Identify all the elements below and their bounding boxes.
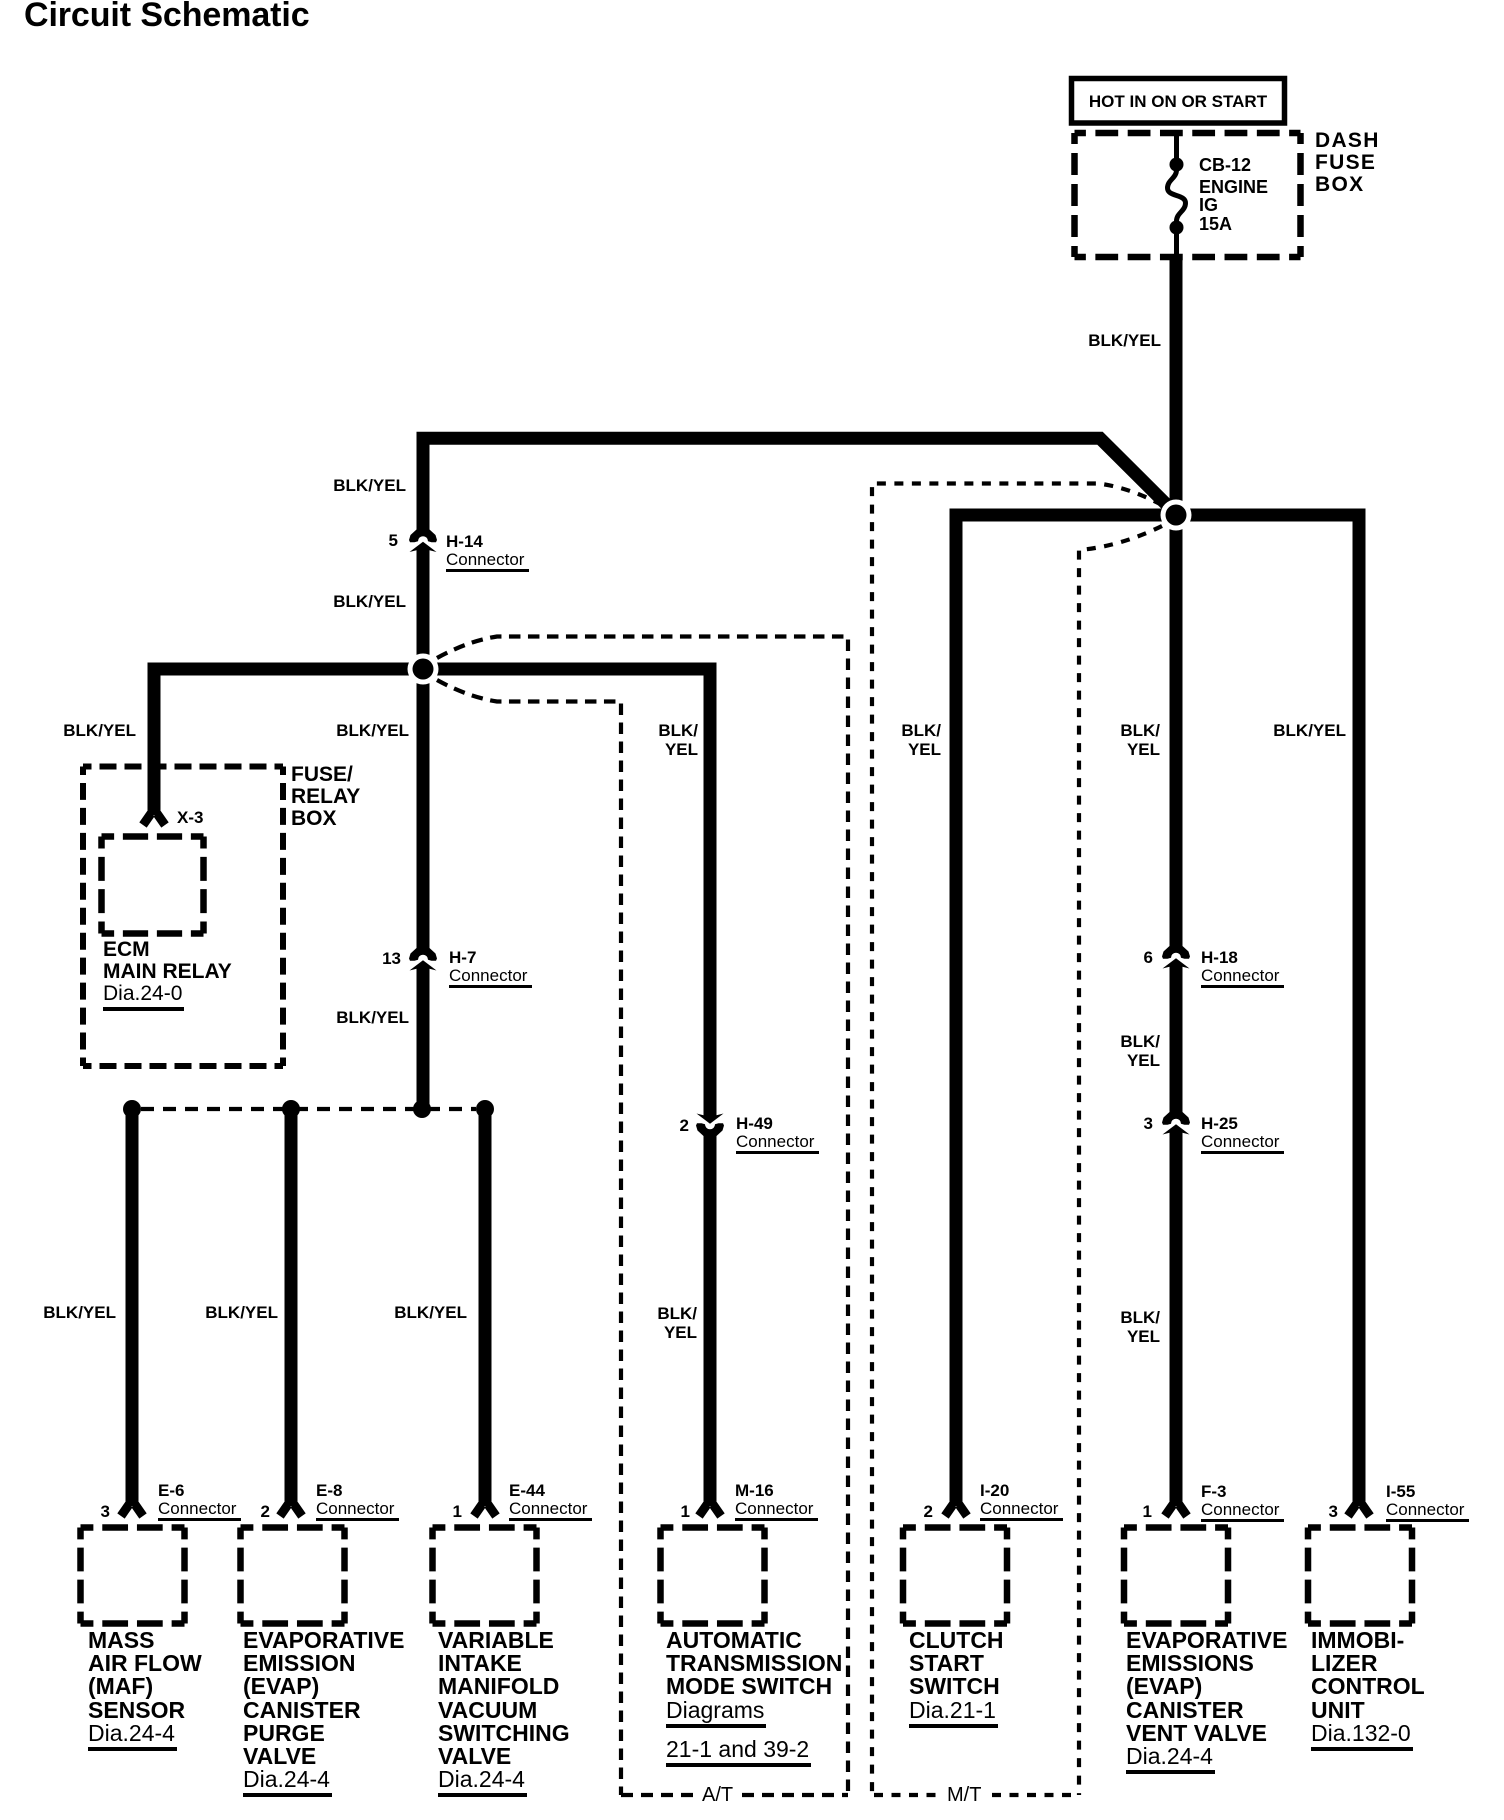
power source box: HOT IN ON OR START [1072,79,1285,124]
terminal M-16 pin 1 fork into A/T mode switch [699,1505,721,1517]
component EVAP canister vent valve box [1124,1528,1228,1624]
component variable intake manifold vacuum switching valve box [433,1528,537,1624]
net label BLK/YEL (below H-14) [333,592,406,611]
splice dot for EVAP purge branch [282,1100,300,1118]
wire BLK/YEL from left junction to automatic transmission mode switch drop [423,669,710,1506]
net label BLK/YEL (vent valve branch mid) [1120,1032,1160,1070]
wire BLK/YEL branch A vertical (H-14 / H-7 feed) [417,432,430,1109]
terminal F-3 pin 1 fork into EVAP vent valve [1165,1505,1187,1517]
net label BLK/YEL (purge valve branch) [205,1303,278,1322]
pin number 2 at H-49 [680,1116,689,1135]
label HOT IN ON OR START [1071,81,1285,122]
ECM main relay inner box [102,837,204,934]
connector label H-14 [446,533,529,572]
wire BLK/YEL from dash fuse box to right junction [1170,257,1183,515]
net label BLK/YEL (branch A mid) [336,721,409,740]
connector label H-49 [736,1115,819,1154]
connector label I-55 [1386,1483,1469,1522]
dashed M/T harness outline lower fork (from right junction) [1079,526,1162,1795]
component label: variable intake manifold vacuum switching valve [438,1629,570,1797]
component label: mass air flow (MAF) sensor [88,1629,202,1751]
component clutch start switch box [903,1528,1007,1624]
component automatic transmission mode switch box [661,1528,765,1624]
component immobilizer control unit box [1308,1528,1412,1624]
connector H-18 pin 6 (inline) [1162,946,1190,969]
component label: clutch start switch [909,1629,1004,1728]
connector label I-20 [980,1482,1063,1521]
net label BLK/YEL (vent valve branch upper) [1120,721,1160,759]
pin number 1 at E-44 [453,1502,462,1521]
dashed A/T harness outline upper fork (from left junction) [437,637,848,1796]
fuse/relay box outline [83,767,283,1067]
fuse value label CB-12 [1199,156,1251,174]
junction node at right rail split [1161,500,1192,531]
pin number 13 at H-7 [382,949,401,968]
pin number 2 at I-20 [924,1502,933,1521]
component label: immobilizer control unit [1311,1629,1425,1751]
connector H-49 pin 2 (inline) [696,1114,724,1137]
net label BLK/YEL (left horizontal to relay box) [63,721,136,740]
pin number 1 at M-16 [681,1502,690,1521]
net label BLK/YEL (above H-14) [333,476,406,495]
harness label M/T [947,1785,981,1805]
label FUSE/RELAY BOX [291,764,360,830]
component EVAP canister purge valve box [241,1528,345,1624]
net label BLK/YEL (branch A below H-7) [336,1008,409,1027]
junction node at branch A split [408,654,439,685]
fuse value label ENGINE IG 15A [1199,178,1268,234]
dashed M/T harness outline upper fork (from right junction) [872,484,1162,1796]
connector label H-25 [1201,1115,1284,1154]
connector label M-16 [735,1482,818,1521]
connector label E-8 [316,1482,399,1521]
dashed splice bus at branch dots [141,1107,476,1111]
connector H-25 pin 3 (inline) [1162,1112,1190,1135]
component label: EVAP canister vent valve [1126,1629,1287,1774]
splice dot for MAF branch [123,1100,141,1118]
label DASH FUSE BOX [1315,130,1380,196]
component mass air flow (MAF) sensor box [81,1528,185,1624]
diagram title [24,0,310,32]
splice dot at branch A wire end [413,1100,431,1118]
wire BLK/YEL left horizontal from junction to fuse/relay box drop [154,669,423,815]
pin number 2 at E-8 [261,1502,270,1521]
splice dot for vacuum switching valve branch [476,1100,494,1118]
wire BLK/YEL branch to variable intake manifold vacuum switching valve [479,1109,492,1506]
connector label F-3 [1201,1483,1284,1522]
wire BLK/YEL main rail from branch A to right junction [417,438,1180,517]
net label BLK/YEL (MAF branch) [43,1303,116,1322]
connector H-7 pin 13 (inline) [409,948,437,971]
net label BLK/YEL (A/T mode switch branch) [658,721,698,759]
wire BLK/YEL immobilizer branch [1176,515,1359,1506]
connector label X-3 [177,809,203,826]
component label: automatic transmission mode switch [666,1629,842,1757]
terminal E-44 pin 1 fork into vacuum switching valve [474,1505,496,1517]
connector label H-7 [449,949,532,988]
wire BLK/YEL branch to MAF sensor [126,1109,139,1506]
dashed M/T harness outline bottom edge [874,1793,1079,1797]
terminal X-3 fork into ECM main relay [143,814,165,826]
dashed A/T harness outline bottom edge [621,1793,848,1797]
terminal E-8 pin 2 fork into EVAP purge valve [280,1505,302,1517]
connector label E-6 [158,1482,241,1521]
fuse CB-12 ENGINE IG 15A (circuit breaker symbol) [1168,133,1186,259]
pin number 5 at H-14 [389,531,398,550]
harness label A/T [702,1785,733,1805]
pin number 3 at I-55 [1329,1502,1338,1521]
pin number 6 at H-18 [1144,948,1153,967]
net label BLK/YEL (A/T mode switch branch lower) [657,1304,697,1342]
net label BLK/YEL (immobilizer branch) [1273,721,1346,740]
dash fuse box outline [1075,133,1301,257]
pin number 3 at H-25 [1144,1114,1153,1133]
connector H-14 pin 5 (inline) [409,530,437,553]
net label BLK/YEL (vacuum switching valve branch) [394,1303,467,1322]
connector label H-18 [1201,949,1284,988]
label ECM MAIN RELAY with Dia.24-0 [103,939,232,1011]
component label: EVAP canister purge valve [243,1629,404,1797]
net label BLK/YEL (fuse drop) [1088,331,1161,350]
terminal I-20 pin 2 fork into clutch start switch [945,1505,967,1517]
pin number 1 at F-3 [1143,1502,1152,1521]
terminal I-55 pin 3 fork into immobilizer control unit [1348,1505,1370,1517]
pin number 3 at E-6 [101,1502,110,1521]
wire BLK/YEL vertical to EVAP canister vent valve (H-18 / H-25 feed) [1170,515,1183,1506]
wire BLK/YEL clutch start switch branch [956,515,1176,1506]
net label BLK/YEL (clutch start switch branch) [901,721,941,759]
terminal E-6 pin 3 fork into MAF sensor [121,1505,143,1517]
connector label E-44 [509,1482,592,1521]
net label BLK/YEL (vent valve branch lower) [1120,1308,1160,1346]
wire BLK/YEL branch to EVAP canister purge valve [285,1109,298,1506]
dashed A/T harness outline lower fork (from left junction) [437,680,621,1795]
